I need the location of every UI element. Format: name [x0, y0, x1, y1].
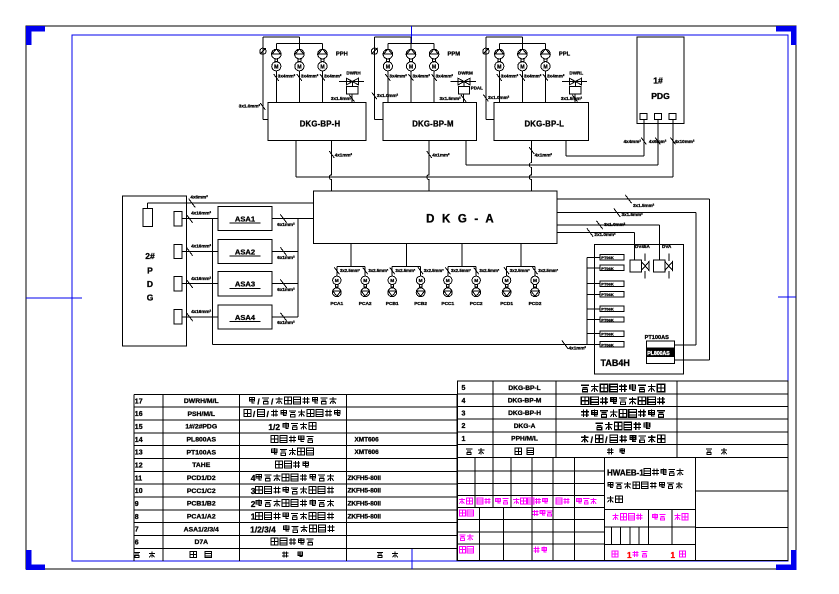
svg-text:PPL: PPL	[559, 52, 571, 58]
svg-text:3x1.5mm²: 3x1.5mm²	[633, 203, 655, 208]
svg-text:PPH/M/L: PPH/M/L	[511, 436, 538, 443]
wire 2#PDG to ASA3	[182, 283, 218, 285]
motor PCC1	[444, 276, 452, 284]
wire top bus group H	[263, 36, 300, 38]
svg-text:1/2: 1/2	[268, 422, 280, 432]
valve DWRL	[562, 81, 587, 83]
svg-text:XMT606: XMT606	[355, 449, 380, 456]
svg-text:TAHE: TAHE	[192, 462, 210, 469]
svg-text:15: 15	[135, 424, 143, 431]
svg-text:PCA1: PCA1	[330, 301, 343, 307]
svg-text:4x1mm²: 4x1mm²	[335, 153, 353, 158]
air handling unit ASA1	[218, 207, 272, 231]
svg-text:3x2.5mm²: 3x2.5mm²	[395, 268, 415, 273]
svg-text:3x2.5mm²: 3x2.5mm²	[451, 268, 471, 273]
svg-text:3x4mm²: 3x4mm²	[301, 73, 319, 78]
wire 2#PDG to ASA4	[182, 316, 218, 318]
svg-text:3x4mm²: 3x4mm²	[436, 73, 454, 78]
table row 10	[135, 486, 381, 496]
svg-text:PCB2: PCB2	[414, 301, 427, 307]
wire motor H3	[322, 71, 324, 103]
table row 12	[135, 461, 309, 469]
title block outline	[458, 457, 788, 560]
wire motor H2	[298, 71, 300, 103]
breaker 1#PDG-1	[640, 114, 647, 120]
svg-text:10: 10	[135, 488, 143, 495]
wire sensor drop L	[485, 37, 487, 119]
breaker 1#PDG-3	[669, 114, 676, 120]
svg-text:6x1mm²: 6x1mm²	[277, 255, 295, 260]
svg-text:PCC2: PCC2	[470, 301, 483, 307]
table row 4	[462, 397, 665, 405]
svg-text:M: M	[409, 64, 413, 70]
svg-text:2: 2	[462, 423, 466, 430]
wire 2#PDG to ASA1	[182, 218, 218, 220]
pump PPM3	[433, 43, 435, 49]
svg-text:2: 2	[251, 499, 256, 509]
svg-text:3x2.5mm²: 3x2.5mm²	[424, 268, 444, 273]
sensor PSM	[371, 48, 377, 54]
wire drop PCB1	[391, 267, 393, 277]
svg-text:PDAL: PDAL	[471, 85, 483, 90]
svg-text:2#: 2#	[145, 251, 155, 261]
pump PCC1	[443, 288, 452, 297]
table row 14	[135, 435, 379, 443]
svg-text:PCC1/C2: PCC1/C2	[187, 488, 216, 495]
coupling PCD1	[505, 285, 508, 288]
corner mark bottom-left	[29, 550, 46, 567]
pump PCD2	[531, 288, 540, 297]
svg-text:1#: 1#	[653, 76, 663, 86]
svg-text:4x16mm²: 4x16mm²	[191, 309, 211, 314]
wire 2#PDG to DKG-A	[147, 203, 149, 209]
wire stub2 into PT100AS	[674, 344, 696, 346]
svg-text:6: 6	[135, 539, 139, 546]
relay PT08K	[600, 342, 624, 347]
center tick right	[778, 296, 796, 298]
pump PPL3	[545, 43, 547, 49]
svg-text:DWRH/M/L: DWRH/M/L	[184, 398, 219, 405]
pump PPM2	[410, 37, 412, 49]
svg-text:ZKFH5-80II: ZKFH5-80II	[348, 501, 382, 508]
wire 1#PDG-3	[672, 120, 674, 178]
svg-text:14: 14	[135, 437, 143, 444]
svg-text:4x10mm²: 4x10mm²	[675, 139, 695, 144]
wire valve H	[351, 94, 353, 103]
wire relay 7	[587, 333, 600, 335]
svg-text:M: M	[474, 278, 478, 284]
svg-text:PL800AS: PL800AS	[647, 351, 670, 357]
motor PCD1	[502, 276, 510, 284]
motor PCB2	[416, 276, 424, 284]
wire DKG-A to PCB1/PCB2	[405, 243, 407, 266]
svg-text:3x1.0mm²: 3x1.0mm²	[377, 93, 399, 98]
wire 2#PDG to ASA2	[182, 251, 218, 253]
motor MM2	[406, 62, 415, 71]
svg-text:M: M	[320, 64, 324, 70]
wire valve M	[463, 94, 465, 103]
wire motor H1	[275, 71, 277, 103]
svg-text:8: 8	[135, 514, 139, 521]
motor PCC2	[472, 276, 480, 284]
svg-text:M: M	[390, 278, 394, 284]
controller box DKG-BP-H	[268, 103, 366, 141]
sensor PSL	[483, 48, 489, 54]
wire drop PCC1	[447, 267, 449, 277]
title block audit row	[460, 534, 474, 540]
motor MH3	[318, 62, 327, 71]
svg-text:PT06K: PT06K	[601, 307, 614, 312]
svg-text:ASA3: ASA3	[235, 280, 255, 289]
svg-text:4x1mm²: 4x1mm²	[535, 153, 553, 158]
coupling PCC2	[475, 285, 478, 288]
wire DKG-A stub 2	[557, 212, 696, 214]
sensor PSH	[260, 48, 266, 54]
table row 2	[462, 422, 650, 430]
coupling L3	[544, 59, 547, 62]
valve DWRH	[339, 81, 364, 83]
svg-text:PCD1/D2: PCD1/D2	[187, 475, 216, 482]
wire drop PCB2	[420, 267, 422, 277]
relay PT07K	[600, 331, 624, 336]
svg-text:3x2.5mm²: 3x2.5mm²	[368, 268, 388, 273]
svg-text:4x16mm²: 4x16mm²	[191, 211, 211, 216]
wire motor M2	[410, 71, 412, 103]
svg-text:3x4mm²: 3x4mm²	[324, 73, 342, 78]
corner mark top-right	[776, 29, 794, 46]
feeder wire H from 1#PDG	[296, 176, 673, 178]
motor ML3	[541, 62, 550, 71]
relay PT06K	[600, 317, 624, 322]
svg-text:3x4mm²: 3x4mm²	[389, 73, 407, 78]
motor MM3	[430, 62, 439, 71]
controller box DKG-BP-L	[494, 103, 588, 141]
svg-text:PT06K: PT06K	[601, 317, 614, 322]
wire DKG-BP-H left to feeder	[295, 141, 297, 178]
svg-text:M: M	[335, 278, 339, 284]
wire long bottom run to TAB4H	[213, 344, 587, 346]
svg-text:PT06K: PT06K	[601, 266, 614, 271]
svg-text:M: M	[505, 278, 509, 284]
motor MM1	[383, 62, 392, 71]
svg-text:M: M	[386, 64, 390, 70]
right table grid	[458, 381, 788, 457]
table row 6	[135, 538, 314, 546]
svg-text:D: D	[147, 279, 153, 289]
coupling H1	[275, 59, 278, 62]
coupling PCB1	[391, 285, 394, 288]
svg-text:1: 1	[627, 551, 632, 560]
inner blue frame	[72, 35, 788, 561]
wire motor M1	[387, 71, 389, 103]
svg-text:PCA1/A2: PCA1/A2	[187, 513, 216, 520]
table row 11	[135, 473, 381, 483]
svg-text:7: 7	[135, 527, 139, 534]
svg-text:PCD1: PCD1	[500, 301, 513, 307]
wire DKG-BP-H right to DKG-A	[329, 141, 331, 192]
wire relay 2	[587, 267, 600, 269]
svg-text:4: 4	[462, 398, 466, 405]
coupling H3	[321, 59, 324, 62]
svg-text:PCA2: PCA2	[359, 301, 372, 307]
svg-text:4x1mm²: 4x1mm²	[432, 153, 450, 158]
wire 1#PDG-1	[643, 120, 645, 157]
distribution box 1#PDG	[637, 37, 684, 124]
svg-text:G: G	[147, 293, 154, 303]
motor MH1	[272, 62, 281, 71]
svg-text:2x1.0mm²: 2x1.0mm²	[594, 232, 616, 237]
title block craft row	[460, 547, 547, 553]
svg-text:4x1mm²: 4x1mm²	[569, 346, 587, 351]
svg-text:HWAEB-1: HWAEB-1	[607, 469, 644, 478]
svg-text:3x2.5mm²: 3x2.5mm²	[340, 268, 360, 273]
wire stub1 into PL800AS	[674, 359, 709, 361]
corner mark top-left	[29, 29, 46, 46]
svg-text:D7A: D7A	[194, 539, 208, 546]
controller box DKG-BP-M	[383, 103, 477, 141]
wire top bus group M	[375, 36, 412, 38]
wire relay 5	[587, 308, 600, 310]
distribution box 2#PDG	[123, 196, 187, 346]
wire relay 8	[587, 343, 600, 345]
right table header	[466, 448, 727, 454]
air handling unit ASA4	[218, 305, 272, 329]
table row 13	[135, 448, 379, 456]
table row 9	[135, 499, 381, 509]
svg-text:M: M	[274, 64, 278, 70]
pump PCC2	[472, 288, 481, 297]
air handling unit ASA2	[218, 239, 272, 263]
svg-text:5: 5	[462, 385, 466, 392]
wire ASA3 out	[272, 283, 298, 285]
left table header	[134, 552, 398, 558]
wire relay 1	[587, 256, 600, 258]
feeder wire L from 1#PDG	[566, 155, 644, 157]
wire relay 6	[587, 319, 600, 321]
air handling unit ASA3	[218, 272, 272, 296]
svg-text:DKG-BP-H: DKG-BP-H	[300, 119, 341, 128]
svg-text:PCC1: PCC1	[441, 301, 454, 307]
wire TAB4H bus	[586, 257, 588, 344]
svg-text:ZKFH5-80II: ZKFH5-80II	[348, 513, 382, 520]
svg-text:PDG: PDG	[651, 91, 670, 101]
svg-text:17: 17	[135, 398, 143, 405]
coupling M1	[387, 59, 390, 62]
svg-text:9: 9	[135, 501, 139, 508]
wire drop PCD2	[534, 267, 536, 277]
pump PPL2	[521, 37, 523, 49]
coupling PCC1	[447, 285, 450, 288]
breaker 1#PDG-2	[654, 114, 661, 120]
svg-text:3x1.5mm²: 3x1.5mm²	[561, 96, 583, 101]
wire sensor drop H	[262, 37, 264, 119]
table row 8	[135, 512, 381, 522]
svg-text:3x4mm²: 3x4mm²	[524, 73, 542, 78]
stage mark row	[613, 514, 689, 520]
pump PPM1	[387, 43, 389, 49]
breaker 2#PDG main	[143, 209, 153, 227]
svg-text:3x1.5mm²: 3x1.5mm²	[331, 96, 353, 101]
table row 1	[462, 435, 666, 445]
svg-text:XMT606: XMT606	[355, 436, 380, 443]
wire 1#PDG-2	[657, 120, 659, 166]
svg-text:3x4mm²: 3x4mm²	[501, 73, 519, 78]
coupling H2	[298, 59, 301, 62]
svg-text:3x4mm²: 3x4mm²	[278, 73, 296, 78]
coupling PCA1	[336, 285, 339, 288]
svg-text:M: M	[533, 278, 537, 284]
svg-text:PPM: PPM	[448, 52, 461, 58]
motor ML1	[495, 62, 504, 71]
svg-text:M: M	[297, 64, 301, 70]
pump PCB2	[416, 288, 425, 297]
svg-text:6x1mm²: 6x1mm²	[277, 287, 295, 292]
svg-text:P: P	[147, 266, 153, 276]
table row 3	[462, 410, 665, 418]
svg-text:ASA1: ASA1	[235, 215, 256, 224]
valve DVA	[654, 260, 665, 272]
coupling PCB2	[419, 285, 422, 288]
relay PT05K	[600, 306, 624, 311]
pump PPH2	[298, 37, 300, 49]
title block design row	[460, 510, 553, 516]
relay PT04K	[600, 292, 624, 297]
svg-text:4x16mm²: 4x16mm²	[191, 244, 211, 249]
wire ASA bus to DKG-A	[298, 218, 314, 220]
svg-text:PL800AS: PL800AS	[187, 437, 217, 444]
svg-text:3x1.5mm²: 3x1.5mm²	[622, 212, 644, 217]
svg-text:4: 4	[251, 473, 256, 483]
svg-text:PSH/M/L: PSH/M/L	[187, 411, 215, 418]
svg-text:DKG-BP-H: DKG-BP-H	[508, 410, 541, 417]
left table grid	[134, 394, 457, 561]
wire ASA1 out	[272, 218, 298, 220]
svg-text:3x1.5mm²: 3x1.5mm²	[440, 96, 462, 101]
wire drop PCD1	[506, 267, 508, 277]
center tick bottom	[411, 548, 413, 569]
coupling L1	[498, 59, 501, 62]
wire top bus group L	[486, 36, 523, 38]
svg-text:PT06K: PT06K	[601, 292, 614, 297]
sensor stack lower box	[646, 356, 674, 363]
svg-text:13: 13	[135, 450, 143, 457]
svg-text:ASA2: ASA2	[235, 247, 255, 256]
svg-text:PT100AS: PT100AS	[187, 449, 217, 456]
svg-text:PT06K: PT06K	[601, 342, 614, 347]
svg-text:ZKFH5-80II: ZKFH5-80II	[348, 475, 382, 482]
svg-text:PPH: PPH	[336, 52, 348, 58]
corner mark bottom-right	[776, 550, 794, 567]
center tick left	[26, 297, 82, 299]
svg-text:4x6mm²: 4x6mm²	[190, 195, 208, 200]
svg-text:DKG-BP-M: DKG-BP-M	[508, 398, 542, 405]
pump PPL1	[498, 43, 500, 49]
pump PCA1	[332, 288, 341, 297]
wire ASA2 out	[272, 251, 298, 253]
title text	[607, 469, 683, 503]
svg-text:3x2.5mm²: 3x2.5mm²	[510, 268, 530, 273]
svg-text:DWRM: DWRM	[458, 70, 473, 75]
breaker 2#PDG-1	[174, 211, 182, 225]
wire ASA4 out	[272, 316, 298, 318]
svg-text:PCD2: PCD2	[529, 301, 542, 307]
svg-text:4x6mm²: 4x6mm²	[649, 139, 667, 144]
center tick top	[411, 26, 413, 44]
wire DKG-BP-L left to DKG-A	[529, 141, 531, 192]
svg-text:DKG-BP-M: DKG-BP-M	[412, 119, 453, 128]
wire ASA bus vertical	[297, 219, 299, 317]
svg-text:3: 3	[462, 411, 466, 418]
wire motor L2	[521, 71, 523, 103]
wire DKG-A to PCA1/PCA2	[350, 243, 352, 266]
wire motor L3	[545, 71, 547, 103]
svg-text:1: 1	[671, 551, 676, 560]
svg-text:4x4mm²: 4x4mm²	[624, 139, 642, 144]
pump PPH3	[322, 43, 324, 49]
relay PT03K	[600, 281, 624, 286]
svg-text:M: M	[419, 278, 423, 284]
svg-text:12: 12	[135, 462, 143, 469]
svg-text:3x1.0mm²: 3x1.0mm²	[488, 95, 510, 100]
coupling L2	[521, 59, 524, 62]
wire drop PCA2	[364, 267, 366, 277]
tank control box TAB4H	[594, 245, 683, 374]
motor PCD2	[531, 276, 539, 284]
svg-text:D K G - A: D K G - A	[426, 214, 496, 226]
wire DKG-A to PCD1/PCD2	[520, 243, 522, 266]
wire DKG-BP-L right to feeder	[565, 141, 567, 157]
svg-text:4x16mm²: 4x16mm²	[191, 276, 211, 281]
pump PCA2	[361, 288, 370, 297]
valve DV45A	[630, 260, 641, 272]
table row 17	[135, 396, 337, 406]
svg-text:DKG-BP-L: DKG-BP-L	[508, 385, 540, 392]
pump PPH1	[275, 43, 277, 49]
svg-text:ZKFH5-80II: ZKFH5-80II	[348, 488, 382, 495]
motor PCB1	[388, 276, 396, 284]
motor PCA2	[361, 276, 369, 284]
svg-text:16: 16	[135, 411, 143, 418]
table row 5	[462, 384, 665, 392]
svg-text:3x4mm²: 3x4mm²	[413, 73, 431, 78]
svg-text:1/2/3/4: 1/2/3/4	[250, 525, 276, 535]
svg-text:1#/2#PDG: 1#/2#PDG	[185, 424, 217, 431]
wire drop PCC2	[475, 267, 477, 277]
svg-text:3x4mm²: 3x4mm²	[547, 73, 565, 78]
svg-text:PCB1: PCB1	[386, 301, 399, 307]
coupling M3	[433, 59, 436, 62]
wire valve L	[574, 94, 576, 103]
wire DKG-BP-M left to DKG-A	[427, 141, 429, 192]
svg-text:3x2.5mm²: 3x2.5mm²	[479, 268, 499, 273]
svg-text:3x1.0mm²: 3x1.0mm²	[604, 222, 626, 227]
svg-text:3x2.5mm²: 3x2.5mm²	[538, 268, 558, 273]
svg-text:DWRL: DWRL	[569, 70, 583, 75]
valve DWRM	[451, 81, 476, 83]
motor MH2	[295, 62, 304, 71]
svg-text:1: 1	[462, 436, 466, 443]
wire DKG-A to PCC1/PCC2	[461, 243, 463, 266]
svg-text:6x1mm²: 6x1mm²	[277, 320, 295, 325]
pump PCD1	[502, 288, 511, 297]
coupling M2	[410, 59, 413, 62]
breaker 2#PDG-2	[174, 244, 182, 258]
svg-text:M: M	[543, 64, 547, 70]
wire 2#PDG jog bus	[212, 219, 214, 345]
svg-text:PT06K: PT06K	[601, 282, 614, 287]
wire DKG-BP-M right to feeder	[465, 141, 467, 166]
motor ML2	[518, 62, 527, 71]
